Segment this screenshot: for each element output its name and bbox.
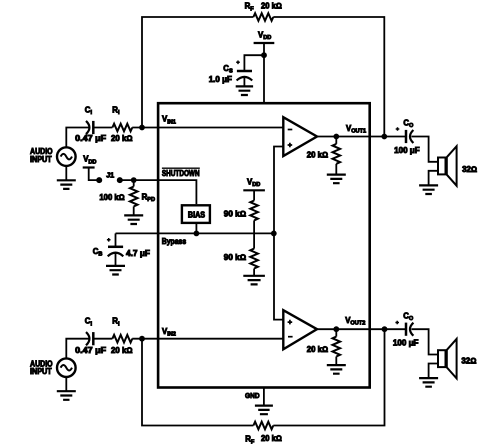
wire: bottom feedback loop channel 2 (VIN2 node down, across, up to VOUT2) (142, 329, 385, 425)
svg-text:0.47 μF: 0.47 μF (75, 346, 106, 355)
node VIN2 (139, 336, 145, 342)
ground below speaker 2 (419, 378, 438, 387)
ground below speaker 1 (419, 185, 438, 194)
wire: VDD to CS branch (244, 55, 264, 71)
svg-text:BIAS: BIAS (188, 210, 206, 219)
wire: BIAS box down to bypass rail (195, 223, 197, 234)
node: bypass to half-VDD rail junction (271, 231, 277, 237)
node: RPD junction (131, 177, 137, 183)
wire: op-amp 1 non-inverting input / common half-VDD rail (274, 147, 283, 320)
resistor RI channel 1 (20k) (112, 124, 132, 132)
svg-text:100 kΩ: 100 kΩ (99, 193, 124, 202)
wire: top feedback loop channel 1 (VIN1 node up, across, down to VOUT1) (142, 17, 384, 137)
resistor 90k lower (250, 249, 258, 269)
resistor RPD 100k pulldown (130, 180, 138, 215)
pin label SHUTDOWN with overline (162, 168, 200, 178)
ground below GND pin (255, 406, 273, 415)
ground below CB (106, 266, 125, 275)
VDD supply symbol (90k divider) (243, 190, 265, 200)
svg-text:SHUTDOWN: SHUTDOWN (162, 169, 200, 178)
wire: CO1 to speaker 1 (411, 137, 437, 162)
speaker 1 (438, 146, 457, 186)
wire: op-amp 1 output to CO1 (317, 136, 405, 138)
label plus CB (107, 238, 111, 242)
op-amp U1A (channel 1) (283, 117, 317, 156)
svg-text:0.47 μF: 0.47 μF (75, 134, 106, 143)
svg-text:100 μF: 100 μF (393, 339, 419, 348)
wire: speaker 2 return to ground (429, 364, 437, 379)
ground below audio input 2 (57, 377, 76, 400)
resistor 20k load channel 1 (333, 137, 341, 175)
capacitor CI channel 2 (0.47uF coupling) (86, 332, 93, 345)
ground below RPD (124, 215, 143, 224)
svg-text:90 kΩ: 90 kΩ (224, 253, 246, 262)
svg-text:90 kΩ: 90 kΩ (224, 210, 246, 219)
svg-text:20 kΩ: 20 kΩ (307, 345, 328, 354)
wire: speaker 1 return to ground (429, 171, 437, 186)
svg-text:J1: J1 (106, 170, 114, 179)
resistor 20k load channel 2 (333, 329, 341, 365)
node: VOUT1 load junction (333, 134, 339, 140)
svg-text:20 kΩ: 20 kΩ (111, 346, 132, 355)
BIAS functional box (182, 205, 210, 223)
audio input source 2 (sine generator) (57, 358, 76, 377)
wire: divider mid crossing bypass rail (253, 220, 255, 248)
wire: J1 to shutdown pin and down to BIAS box (120, 180, 197, 204)
capacitor CI channel 1 (0.47uF coupling) (86, 121, 93, 134)
svg-text:20 kΩ: 20 kΩ (111, 134, 132, 143)
svg-text:4.7 μF: 4.7 μF (126, 249, 150, 258)
wire: RI to op-amp 1 inverting input (132, 127, 283, 129)
resistor RF (bottom feedback 20k) (253, 422, 273, 430)
capacitor CS 1.0uF (polarized) (237, 71, 253, 86)
wire: source 2 up to input wire (66, 339, 89, 359)
wire: CI to RI channel 1 (93, 127, 112, 129)
svg-text:20 kΩ: 20 kΩ (307, 151, 328, 160)
wire: CI to RI channel 2 (93, 338, 112, 340)
svg-text:32Ω: 32Ω (461, 356, 476, 365)
resistor RF (top feedback 20k) (253, 13, 273, 21)
capacitor CO channel 1 (100uF output, polarized) (406, 130, 413, 143)
VDD supply symbol (top) (254, 43, 275, 103)
audio input source 1 (sine generator) (57, 147, 76, 166)
node: VDD/CS junction (261, 52, 267, 58)
capacitor CB 4.7uF (polarized bypass) (108, 233, 124, 266)
node: VOUT2 load junction (333, 326, 339, 332)
ground below 90k divider (243, 276, 265, 285)
wire: CO2 to speaker 2 (411, 329, 437, 354)
wire: 90k lower to ground (253, 269, 255, 276)
VDD supply symbol (J1 shutdown switch) (83, 168, 100, 181)
svg-text:32Ω: 32Ω (462, 165, 477, 174)
wire: GND pin stem (263, 388, 265, 406)
label plus CO2 (395, 321, 399, 325)
ground below CS (236, 86, 253, 95)
node VIN1 (139, 125, 145, 131)
op-amp U1B (channel 2) (283, 310, 317, 349)
IC boundary box U1 (158, 103, 370, 387)
svg-text:1.0 μF: 1.0 μF (209, 75, 232, 84)
wire: source 1 up to input wire (66, 128, 89, 148)
ground below audio input 1 (57, 166, 76, 189)
wire: op-amp 2 output to CO2 (317, 328, 405, 330)
resistor 90k upper (250, 201, 258, 221)
wire: RI to op-amp 2 inverting input (132, 338, 283, 340)
ground below 20k load 2 (327, 365, 346, 374)
svg-text:GND: GND (245, 391, 260, 400)
svg-text:INPUT: INPUT (30, 367, 52, 376)
switch J1 pole dot (96, 177, 102, 183)
node: BIAS/bypass junction (194, 231, 200, 237)
speaker 2 (438, 339, 457, 379)
node: VOUT1 feedback junction (381, 134, 387, 140)
svg-text:20 kΩ: 20 kΩ (261, 1, 282, 10)
svg-text:Bypass: Bypass (162, 237, 187, 246)
capacitor CO channel 2 (100uF output, polarized) (406, 323, 413, 336)
switch J1 throw dot (117, 177, 123, 183)
svg-text:20 kΩ: 20 kΩ (261, 434, 282, 443)
resistor RI channel 2 (20k) (112, 335, 132, 343)
label plus CS (236, 61, 240, 65)
wire: bypass rail (116, 232, 274, 234)
node: VOUT2 feedback junction (382, 326, 388, 332)
svg-text:100 μF: 100 μF (394, 146, 420, 155)
svg-text:INPUT: INPUT (30, 155, 52, 164)
label plus CO1 (396, 127, 400, 131)
ground below 20k load 1 (327, 175, 346, 184)
